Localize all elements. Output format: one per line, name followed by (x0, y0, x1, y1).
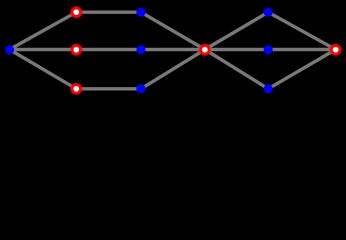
wire F-H (141, 48, 205, 51)
wire C-F (76, 48, 141, 51)
node B (red ringed vertex) (72, 8, 80, 16)
wire I-L (268, 12, 335, 49)
node K (blue vertex) (264, 84, 273, 93)
node D (red ringed vertex) (72, 85, 80, 93)
node E (blue vertex) (136, 8, 145, 17)
wire J-L (268, 48, 335, 51)
wire H-I (205, 12, 268, 49)
wire H-J (205, 48, 268, 51)
wire G-H (141, 50, 205, 89)
node H (red ringed vertex, center) (201, 46, 209, 54)
node A (blue vertex) (5, 45, 14, 54)
wire A-D (10, 50, 77, 89)
wire E-H (141, 12, 205, 49)
wire A-B (10, 12, 77, 49)
node J (blue vertex) (264, 45, 273, 54)
node C (red ringed vertex) (72, 46, 80, 54)
node G (blue vertex) (136, 84, 145, 93)
node I (blue vertex) (264, 8, 273, 17)
node F (blue vertex) (136, 45, 145, 54)
wire A-C (10, 48, 77, 51)
wire K-L (268, 50, 335, 89)
wire H-K (205, 50, 268, 89)
wire D-G (76, 87, 141, 90)
node L (red ringed vertex, right) (331, 46, 339, 54)
wire B-E (76, 10, 141, 13)
